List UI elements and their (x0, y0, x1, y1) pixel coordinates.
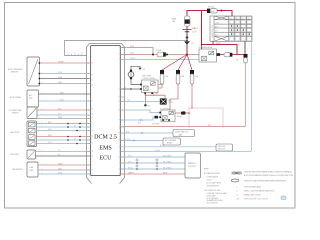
svg-text:1 FP: 1 FP (127, 100, 130, 102)
ECU label DCM 2.5 EMS ECU (94, 135, 117, 162)
svg-text:I1: I1 (242, 18, 243, 20)
wire F6 down to glow relay (170, 84, 178, 110)
svg-text:INJ 4: INJ 4 (48, 142, 52, 144)
svg-text:INJ 3: INJ 3 (48, 135, 52, 137)
svg-text:BOOST PRESSURE: BOOST PRESSURE (8, 69, 23, 71)
wire pump to ground loop (131, 66, 140, 69)
svg-text:CLUSTER: CLUSTER (188, 166, 196, 168)
svg-text:74: 74 (118, 133, 120, 135)
svg-text:SIG 1: SIG 1 (60, 92, 64, 94)
svg-text:FT +: FT + (58, 150, 61, 152)
svg-text:5V REF: 5V REF (58, 61, 64, 63)
svg-text:CKP +: CKP + (128, 155, 133, 157)
wire J3-1 red (37, 108, 91, 110)
wire J4 inj3- blue (37, 142, 91, 145)
wire J2-1 dark (39, 92, 91, 94)
wire ECU glow coil 1 blue (122, 110, 162, 113)
svg-text:18: 18 (118, 174, 120, 176)
svg-text:FULL FUNCTION LIST:: FULL FUNCTION LIST: (204, 190, 221, 192)
wire J5-1 blue (36, 150, 91, 152)
wire ECU to diag box blue (122, 144, 217, 147)
svg-text:GB: GB (237, 199, 239, 201)
svg-text:B+ FP: B+ FP (153, 94, 157, 96)
battery feed vertical from ignition fuse (186, 27, 188, 55)
svg-text:L 3: L 3 (74, 138, 76, 140)
wire glow loop up over (189, 108, 223, 127)
svg-text:L 1: L 1 (74, 125, 76, 127)
wire relay feed into relay top (201, 45, 203, 50)
svg-text:EGT: EGT (126, 131, 129, 133)
legend B blue (237, 199, 269, 201)
svg-text:INJ 1: INJ 1 (48, 122, 52, 124)
relay K3 glow plug relay (159, 107, 175, 121)
tiny emblem (281, 196, 286, 200)
wire crank sensor 3 blue (122, 167, 186, 169)
fan node junction (186, 54, 188, 56)
wire crank sensor 4 red (122, 171, 186, 174)
svg-text:16: 16 (118, 97, 120, 99)
fuse F4 vertical (236, 54, 247, 63)
wire J3-3 gray (37, 117, 91, 119)
wire J6-3 blue (38, 172, 91, 174)
svg-text:2) EGT: 2) EGT (207, 180, 212, 182)
wire crank sensor 1 blue (122, 155, 186, 157)
ground bus pin ticks (67, 53, 83, 56)
svg-text:87 KL: 87 KL (130, 53, 134, 55)
wire F7 down long (191, 84, 193, 108)
fuse F7 (190, 70, 199, 84)
svg-text:IG 2: IG 2 (215, 34, 218, 36)
twisted pair markers (136, 159, 158, 167)
box engine check lamp (173, 130, 195, 137)
wire J4 inj3+ blue (37, 138, 91, 141)
svg-text:ECU: ECU (100, 156, 113, 162)
svg-text:SW B+: SW B+ (216, 43, 221, 45)
ignition switch S1 table (210, 16, 252, 41)
svg-text:81: 81 (118, 110, 120, 112)
svg-text:25 GLOW: 25 GLOW (152, 124, 160, 126)
wire ECU lamp 2 blue (122, 138, 164, 142)
wire ECU to pump relay coil blue (122, 87, 141, 89)
arrow on glow diag wire (140, 119, 143, 121)
svg-text:PUMP: PUMP (168, 102, 173, 104)
wire fan to fuse F6 (178, 55, 187, 71)
wire J1-2 signal blue (40, 72, 90, 74)
wire crank sensor 2 blue (122, 161, 186, 163)
wire ECU VCC red top (122, 46, 154, 55)
connector arrow on top bus (221, 9, 224, 11)
wire F5 to pump relay contacts (158, 84, 162, 88)
wire pump bottom to relay (131, 79, 142, 84)
svg-text:G3: G3 (148, 106, 150, 108)
svg-text:INJECTORS: INJECTORS (10, 132, 19, 134)
legend R red (237, 195, 262, 197)
op ECU outer connector shell (87, 44, 125, 184)
ignition switch contact dots (229, 17, 251, 41)
J1 pin nubs (39, 62, 41, 84)
svg-text:73: 73 (118, 89, 120, 91)
wire J3-2 blue (37, 113, 91, 115)
wire J1-3 dark (40, 77, 90, 79)
svg-text:GREY BLUE WH - BLUE COLOR: GREY BLUE WH - BLUE COLOR (244, 199, 269, 201)
svg-text:12 V: 12 V (192, 31, 197, 33)
wire ECU IG sense long blue (122, 41, 252, 152)
wire glow relay output red (138, 111, 189, 125)
fuse F2 ignition (172, 16, 190, 26)
wire battery top bus red (187, 11, 207, 16)
svg-text:IG 1: IG 1 (215, 30, 218, 32)
connector J5 sensor (10, 150, 36, 159)
svg-text:FT -: FT - (58, 154, 61, 156)
relay K2 fuel pump control relay (140, 76, 158, 95)
wire switched feed to fuse F3 (202, 45, 238, 55)
svg-text:SIG 2: SIG 2 (60, 99, 64, 101)
wire fuse F4 down pink (245, 63, 247, 127)
wire J1-1 5V red (40, 61, 90, 63)
svg-text:INJ 2: INJ 2 (48, 129, 52, 131)
svg-text:IG SW: IG SW (155, 150, 160, 152)
connector pin numbers (42, 62, 43, 175)
svg-text:G2: G2 (143, 69, 145, 71)
svg-text:SENSOR: SENSOR (12, 112, 20, 114)
wire ignition out IG2 dark red (244, 41, 246, 54)
svg-text:FUEL TEMP: FUEL TEMP (10, 154, 19, 156)
wire relay out to fuse F3 red (220, 54, 224, 56)
connector J3 sensor (9, 107, 37, 119)
legend twisted pair symbol (232, 171, 294, 177)
wire J2-2 blue (39, 99, 91, 101)
svg-text:75: 75 (118, 140, 120, 142)
wire J1-4 gnd gray (40, 82, 90, 84)
svg-text:BURNS - RED COLOR: BURNS - RED COLOR (244, 195, 261, 197)
ECU left pin stubs (88, 63, 91, 174)
wire ECU glow bus pink (122, 125, 246, 127)
svg-text:SENSOR: SENSOR (11, 71, 19, 73)
ignition switch header marks (231, 17, 250, 20)
svg-text:MIL CHECK: MIL CHECK (163, 161, 173, 163)
fuse F1 inline on main supply (156, 49, 168, 57)
svg-text:29: 29 (118, 101, 120, 103)
svg-text:MIL CHECK: MIL CHECK (163, 167, 173, 169)
wire J5-2 dark (36, 154, 91, 156)
wire J4 inj2- red (37, 135, 91, 138)
svg-text:T: T (237, 187, 238, 189)
svg-text:CLT +: CLT + (58, 108, 62, 110)
svg-text:S: S (237, 191, 238, 193)
inline connector on glow wire (155, 116, 158, 119)
wire ignition ACC down (212, 41, 214, 44)
ignition switch row labels (215, 22, 219, 36)
ECU U1 body (91, 46, 121, 176)
battery B1 (183, 27, 199, 41)
fusebox FB1 on top bus (207, 6, 217, 13)
wire J4 inj1+ red (37, 122, 91, 124)
wire ECU pump sense blue (122, 101, 160, 103)
ECU pin numbers (92, 63, 94, 176)
connector J2 sensor (10, 90, 39, 107)
connector J6 (12, 162, 38, 177)
svg-text:CKP -: CKP - (128, 161, 133, 163)
svg-text:5) GLOW PLUG: 5) GLOW PLUG (207, 203, 219, 205)
svg-text:DCM 2.5: DCM 2.5 (94, 135, 117, 141)
wire J4 inj1- blue (37, 125, 91, 127)
wire fan to fuse F5 (162, 55, 187, 71)
connector J4 injectors (10, 121, 37, 147)
fuse F3 horizontal (224, 53, 232, 57)
pump motor M1 circle (128, 70, 134, 80)
svg-text:EMS: EMS (99, 146, 111, 152)
relay K1 ECU main relay (199, 46, 220, 62)
wire ignition feed down left of table (201, 11, 203, 45)
svg-text:NOTE:: NOTE: (204, 169, 209, 171)
legend S (237, 190, 275, 193)
fuse F6 (176, 70, 185, 84)
legend shielded symbol (231, 179, 286, 182)
NOTE text block (204, 169, 227, 205)
svg-text:71: 71 (118, 47, 120, 49)
svg-text:55: 55 (118, 54, 120, 56)
fuse F5 (160, 70, 169, 84)
legend T (237, 186, 261, 189)
svg-text:30 KL: 30 KL (130, 46, 134, 48)
svg-text:GLOW: GLOW (177, 116, 182, 118)
svg-text:BATT: BATT (192, 27, 198, 30)
svg-text:FUEL PUMP: FUEL PUMP (142, 76, 151, 78)
svg-text:B: B (231, 18, 232, 20)
svg-text:IGNITION SW: IGNITION SW (212, 25, 214, 38)
box lamp cluster (185, 153, 201, 178)
svg-text:LOCK: LOCK (215, 22, 219, 24)
box diagnostic (216, 144, 233, 151)
wire fuse F3 to node (232, 54, 243, 56)
ground VG (184, 37, 194, 46)
svg-text:F4: F4 (236, 60, 238, 62)
wire ECU main supply red (122, 53, 200, 56)
glow bus junction dots (188, 112, 190, 114)
svg-text:29: 29 (118, 157, 120, 159)
svg-text:CLT -: CLT - (58, 113, 62, 115)
svg-text:FP: FP (124, 87, 126, 89)
ECU right pin stubs (120, 48, 124, 175)
svg-text:I2: I2 (248, 18, 249, 20)
wire pump relay to fuel pump red (145, 94, 165, 98)
svg-text:FUEL: FUEL (168, 100, 172, 102)
wire J4 inj2+ blue (37, 129, 91, 132)
fuel pump P1 (160, 98, 173, 104)
connector J1 boost pressure sensor (8, 57, 40, 86)
ground arrow pump (138, 68, 141, 70)
wire J6-1 red (38, 162, 91, 165)
wire J6-2 gray (38, 167, 91, 170)
svg-text:51: 51 (118, 146, 120, 148)
wire top bus to ignition switch (217, 11, 232, 17)
svg-text:4) ENGINE RPM: 4) ENGINE RPM (207, 186, 220, 188)
wire ECU glow diag blue (122, 117, 162, 120)
svg-text:M REL: M REL (130, 58, 135, 60)
wire fan to fuse F7 (187, 55, 192, 71)
svg-text:MIL CHECK: MIL CHECK (163, 155, 173, 157)
ECU ground bus wire (65, 41, 188, 56)
wire ECU lamp 1 blue (122, 131, 174, 134)
svg-text:75: 75 (118, 120, 120, 122)
box A/C compressor relay (163, 138, 181, 145)
wire ECU relay coil blue (122, 58, 200, 60)
svg-text:72: 72 (118, 169, 120, 171)
